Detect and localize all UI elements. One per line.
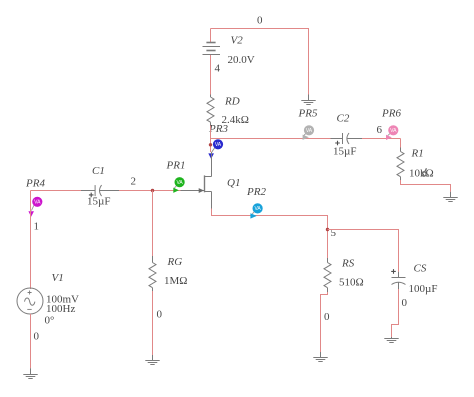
junction drain node: [209, 143, 212, 146]
svg-text:C1: C1: [92, 165, 105, 177]
svg-text:VA: VA: [176, 180, 183, 186]
wire RD to drain node: [210, 126, 212, 153]
svg-text:Q1: Q1: [227, 177, 240, 189]
ground (below RG): [145, 355, 159, 365]
svg-text:100µF: 100µF: [409, 283, 438, 295]
svg-text:0: 0: [34, 331, 40, 343]
probe PR3: [208, 139, 223, 159]
svg-text:15µF: 15µF: [87, 195, 110, 207]
svg-text:VA: VA: [34, 200, 41, 206]
svg-text:V1: V1: [52, 272, 64, 284]
wire CS branch down: [398, 230, 400, 272]
svg-text:0: 0: [324, 311, 330, 323]
wire C2 to node 6 corner: [362, 138, 401, 140]
probe PR5: [303, 125, 315, 140]
svg-text:PR6: PR6: [381, 107, 401, 119]
junction node 5: [326, 228, 329, 231]
wire V1 to ground: [30, 314, 32, 368]
svg-text:1: 1: [34, 221, 40, 233]
wire down to node 5: [327, 216, 329, 259]
probe PR2: [250, 203, 262, 218]
svg-text:PR5: PR5: [298, 107, 318, 119]
wire RG to ground: [152, 291, 154, 355]
svg-text:100Hz: 100Hz: [46, 303, 75, 315]
Q1 drain lead (gray): [211, 152, 213, 177]
wire R1 bottom to ground: [401, 180, 451, 192]
CS plus sign: [391, 269, 396, 274]
probe PR4: [28, 197, 42, 217]
source V1: [17, 288, 43, 314]
wire input net: PR4 corner to C1: [31, 190, 82, 192]
svg-text:20.0V: 20.0V: [228, 54, 255, 66]
svg-text:RS: RS: [341, 258, 355, 270]
svg-text:4: 4: [215, 63, 221, 75]
resistor R1 10k: [397, 148, 404, 181]
svg-text:C2: C2: [337, 113, 350, 125]
C1 plus sign: [89, 193, 94, 198]
resistor RS 510: [324, 258, 331, 292]
wire CS to ground: [392, 289, 399, 337]
wire battery to RD: [210, 55, 212, 95]
svg-text:R1: R1: [411, 147, 424, 159]
wire top-right vertical to ground lead: [308, 29, 310, 95]
svg-text:V2: V2: [231, 35, 244, 47]
svg-text:CS: CS: [414, 263, 427, 275]
svg-text:0: 0: [157, 309, 163, 321]
cursor mark: [422, 168, 427, 176]
ground (below CS): [384, 337, 398, 343]
svg-text:PR3: PR3: [208, 123, 228, 135]
svg-text:6: 6: [377, 124, 383, 136]
svg-text:510Ω: 510Ω: [339, 277, 364, 289]
svg-text:VA: VA: [254, 206, 261, 212]
junction node 2: [151, 189, 154, 192]
svg-text:1MΩ: 1MΩ: [164, 275, 187, 287]
probe PR6: [386, 125, 398, 140]
svg-text:PR1: PR1: [166, 159, 186, 171]
resistor RD 2.4k: [207, 95, 214, 126]
wire RG branch: [152, 191, 154, 257]
wire C1 to gate: [119, 190, 181, 192]
svg-text:PR4: PR4: [25, 178, 45, 190]
wire top net 0 horizontal: [211, 28, 310, 30]
ground (below R1): [443, 192, 457, 202]
wire node6 down to R1: [400, 139, 402, 148]
capacitor C2 15uF: [331, 133, 363, 144]
wire PR4 corner down to V1: [30, 191, 32, 290]
svg-text:5: 5: [331, 227, 337, 239]
wire RS to ground: [321, 292, 328, 352]
wire source down and right: [212, 209, 329, 216]
Q1 gate arrowhead: [199, 188, 204, 193]
C2 plus sign: [335, 141, 340, 146]
battery V2: [210, 29, 212, 43]
svg-text:PR2: PR2: [246, 186, 266, 198]
wire drain node to C2 branch: [211, 138, 331, 140]
svg-text:VA: VA: [215, 142, 222, 148]
svg-text:0: 0: [402, 297, 408, 309]
resistor RG 1M: [149, 256, 156, 291]
transistor Q1 JFET: [181, 175, 212, 208]
ground (top right, net 0): [301, 95, 315, 105]
svg-text:15µF: 15µF: [333, 146, 356, 158]
capacitor CS 100uF: [392, 272, 406, 289]
capacitor C1 15uF: [81, 185, 119, 196]
svg-text:RG: RG: [167, 256, 183, 268]
svg-text:0: 0: [257, 15, 263, 27]
svg-text:RD: RD: [224, 95, 240, 107]
ground (below RS): [313, 352, 327, 362]
svg-text:0°: 0°: [45, 315, 55, 327]
svg-text:VA: VA: [390, 128, 397, 134]
ground (below V1): [23, 368, 37, 378]
probe PR1: [173, 177, 184, 193]
svg-text:2: 2: [131, 175, 137, 187]
svg-text:VA: VA: [306, 128, 313, 134]
wire node 5 to CS branch: [328, 229, 400, 231]
